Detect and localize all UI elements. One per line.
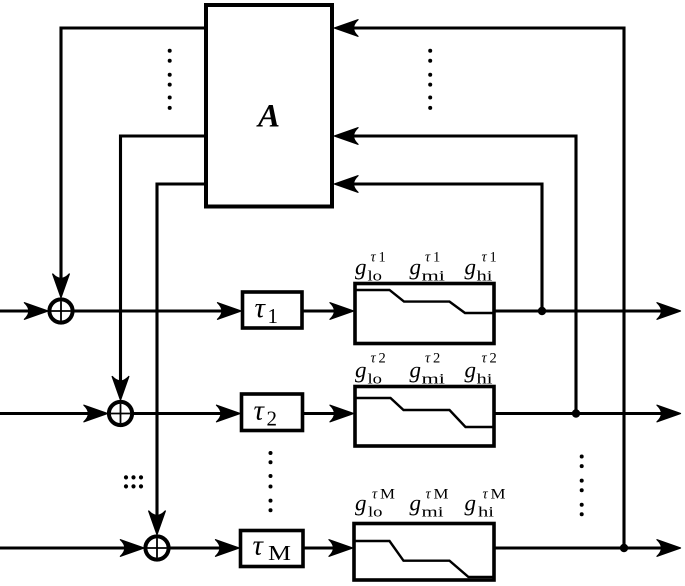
svg-text:M: M [491, 487, 506, 503]
arrowhead into filterM [329, 540, 353, 557]
wire input x2 [0, 412, 96, 415]
delay box tau1 [243, 292, 303, 328]
delay box tauM [241, 531, 304, 567]
svg-text:τ: τ [426, 487, 432, 503]
arrowhead input x1 [24, 303, 48, 320]
wire sum2 to tau2 [132, 412, 230, 415]
svg-text:2: 2 [433, 351, 440, 367]
svg-text:τ: τ [371, 250, 377, 266]
svg-text:1: 1 [490, 250, 497, 266]
wire filter2 output y2 [494, 412, 668, 415]
wire filter1 output y1 [494, 309, 668, 312]
wire input x1 [0, 309, 36, 312]
sum junction S2 [109, 402, 132, 425]
wire A left port1 to drop x=61 [61, 28, 206, 286]
wire input xM [0, 546, 132, 549]
junction dot rowM [620, 544, 628, 552]
arrowhead into sum SM (down) [149, 511, 166, 535]
arrowhead into filter1 [330, 303, 354, 320]
svg-text:1: 1 [268, 304, 279, 328]
wire filterM output yM [494, 546, 668, 549]
junction dot row1 [538, 307, 546, 315]
svg-text:hi: hi [477, 372, 493, 388]
svg-text:M: M [380, 487, 395, 503]
svg-text:τ: τ [482, 250, 488, 266]
filter box G1 [355, 284, 494, 344]
gain curve in filter1 [357, 290, 493, 313]
svg-text:mi: mi [422, 505, 444, 521]
junction dot row2 [572, 409, 580, 417]
arrowhead into filter2 [330, 405, 354, 422]
sum junction S1 [49, 299, 72, 322]
matrix block A [206, 5, 332, 207]
svg-text:τ: τ [425, 351, 431, 367]
arrowhead output y1 [657, 303, 681, 320]
wire A left port3 to drop x=157 [157, 184, 206, 523]
svg-text:M: M [434, 487, 449, 503]
dots column mid-right [580, 455, 584, 459]
wire tau2 to filter2 [303, 412, 343, 415]
wire tau1 to filter1 [302, 309, 342, 312]
arrowhead into tauM [216, 540, 240, 557]
gain curve in filterM [356, 541, 493, 577]
svg-text:g: g [410, 491, 422, 516]
arrowhead into sum S1 (down) [53, 274, 70, 298]
wire tauM to filterM [303, 546, 341, 549]
svg-text:1: 1 [379, 250, 386, 266]
arrowhead input xM [120, 540, 143, 557]
svg-text:τ: τ [253, 530, 265, 562]
wire feedback row2 vertical x=576 [347, 136, 576, 414]
wire sum1 to tau1 [73, 309, 231, 312]
dots column top-right [428, 49, 432, 53]
svg-text:τ: τ [372, 487, 378, 503]
svg-text:1: 1 [433, 250, 440, 266]
svg-text:g: g [355, 491, 367, 516]
svg-text:g: g [465, 255, 477, 280]
wire feedback rowM vertical x=624 [347, 28, 624, 548]
dots column top-left [168, 49, 172, 53]
filter box GM [354, 524, 494, 581]
svg-text:g: g [355, 358, 367, 383]
svg-text:2: 2 [267, 407, 278, 431]
svg-text:τ: τ [482, 351, 488, 367]
svg-text:τ: τ [425, 250, 431, 266]
svg-text:lo: lo [368, 269, 383, 285]
gain curve in filter2 [357, 398, 493, 427]
wire A left port2 to drop x=120.5 [121, 136, 207, 389]
svg-text:τ: τ [255, 292, 267, 324]
svg-text:hi: hi [477, 269, 493, 285]
svg-text:g: g [410, 358, 422, 383]
svg-text:mi: mi [422, 269, 446, 285]
svg-text:g: g [465, 491, 477, 516]
svg-text:lo: lo [368, 505, 383, 521]
dots grid 2x3 left-middle [124, 475, 128, 479]
svg-text:lo: lo [368, 372, 383, 388]
svg-text:g: g [410, 255, 422, 280]
arrowhead feedback row1 into A [335, 176, 359, 193]
labels g_lo g_mi g_hi row1 [355, 255, 476, 280]
wire feedback row1 vertical x=542 [347, 184, 542, 311]
svg-text:τ: τ [483, 487, 489, 503]
arrowhead output y2 [657, 405, 681, 422]
svg-text:mi: mi [422, 372, 446, 388]
svg-text:M: M [268, 541, 291, 565]
arrowhead input x2 [84, 405, 108, 422]
svg-text:hi: hi [478, 505, 494, 521]
arrowhead output yM [657, 540, 681, 557]
arrowhead feedback row2 into A [335, 128, 359, 145]
arrowhead into sum S2 (down) [112, 377, 129, 401]
svg-text:2: 2 [379, 351, 386, 367]
arrowhead into tau2 [217, 405, 241, 422]
arrowhead into tau1 [218, 303, 242, 320]
filter box G2 [355, 387, 494, 447]
labels g_lo g_mi g_hi rowM [355, 491, 476, 516]
sum junction SM [145, 536, 168, 559]
dots column mid-left [269, 451, 273, 455]
wire sumM to tauM [169, 546, 230, 549]
svg-text:g: g [355, 255, 367, 280]
labels g_lo g_mi g_hi row2 [355, 358, 476, 383]
delay box tau2 [242, 394, 303, 431]
svg-text:A: A [256, 99, 280, 135]
svg-text:τ: τ [254, 395, 266, 427]
svg-text:2: 2 [490, 351, 497, 367]
svg-text:τ: τ [371, 351, 377, 367]
arrowhead feedback rowM into A [335, 20, 359, 37]
svg-text:g: g [465, 358, 477, 383]
